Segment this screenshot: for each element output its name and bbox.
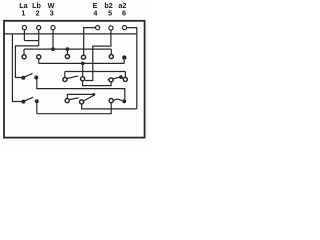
- svg-text:1: 1: [21, 9, 25, 18]
- pin number 4: [93, 9, 97, 18]
- wire A right drop: [124, 72, 126, 78]
- switch A-right ring R: [123, 77, 127, 81]
- plug contact P5: [109, 54, 113, 58]
- terminal circle 4 (E): [96, 26, 100, 30]
- rail1 right drop to contact P5: [110, 49, 112, 54]
- terminal label E: [93, 1, 98, 10]
- switch A-left arm: [25, 73, 33, 77]
- terminal circle 1 (La): [22, 26, 26, 30]
- switch A-mid arm: [67, 76, 78, 79]
- terminal circle 5 (b2): [109, 26, 113, 30]
- rail3 wire: [39, 62, 125, 64]
- plug contact P2: [37, 55, 41, 59]
- switch A-right ring L: [109, 78, 113, 82]
- wire U link 1-2: [24, 40, 38, 42]
- terminal label b2: [104, 1, 112, 10]
- wire bottom right run: [82, 104, 137, 109]
- switch C-right fixed dot: [122, 99, 126, 103]
- wire C-left fixed dot down: [36, 103, 38, 113]
- terminal circle 2 (Lb): [37, 26, 41, 30]
- switch C-left pivot dot: [21, 100, 25, 104]
- plug contact P1: [22, 55, 26, 59]
- switch C-left arm: [25, 97, 33, 101]
- wire terminal 1 stem: [23, 30, 25, 41]
- terminal label W: [48, 1, 55, 10]
- svg-text:4: 4: [93, 9, 97, 18]
- pin number 5: [108, 9, 112, 18]
- rail2 from A-left fixed dot: [37, 79, 125, 99]
- switch C-right arm: [113, 99, 122, 100]
- switch A-mid ring R: [81, 77, 85, 81]
- switch A-left fixed dot: [34, 76, 38, 80]
- switch C-mid arm 2: [84, 96, 94, 101]
- wire P2 to rail3: [38, 59, 40, 63]
- switch C-mid ring L: [65, 99, 69, 103]
- switch C-left fixed dot: [35, 99, 39, 103]
- wire rail3 down to ring A2: [82, 63, 84, 76]
- bus wire a2 net: [4, 33, 137, 35]
- terminal circle 6 (a2): [123, 26, 127, 30]
- wire left feed row C: [12, 34, 21, 102]
- terminal label a2: [118, 1, 126, 10]
- stub left of ring A3: [108, 79, 109, 81]
- junction dot rail3 x82.7: [81, 62, 85, 66]
- wire terminal 3 stem: [52, 30, 54, 49]
- terminal label Lb: [32, 1, 41, 10]
- switch A-left pivot dot: [21, 76, 25, 80]
- switch A-right arm R: [119, 77, 123, 78]
- pin number 3: [50, 9, 54, 18]
- junction dot t3-rail1: [51, 47, 55, 51]
- switch C-right ring: [109, 99, 113, 103]
- pin number 2: [36, 9, 40, 18]
- svg-text:5: 5: [108, 9, 112, 18]
- switch C-mid ring R: [80, 100, 84, 104]
- terminal label La: [19, 1, 28, 10]
- svg-text:6: 6: [122, 9, 126, 18]
- rail3 right up to P6: [123, 60, 125, 64]
- wire A left drop: [64, 72, 66, 78]
- wire terminal 4 to P4: [84, 28, 96, 55]
- rail1 drop to contact P3: [66, 49, 68, 54]
- svg-text:3: 3: [50, 9, 54, 18]
- plug contact P6 dot: [122, 55, 126, 59]
- switch C-mid arm: [69, 98, 78, 100]
- plug contact P4: [81, 55, 85, 59]
- wire B to left: [15, 46, 38, 78]
- wire terminal 5: [85, 30, 111, 80]
- pin number 1: [21, 9, 25, 18]
- switch A-mid ring L: [63, 77, 67, 81]
- rail1 left drop: [23, 49, 25, 55]
- svg-text:2: 2: [36, 9, 40, 18]
- switch A-right contact dot: [119, 75, 123, 79]
- plug contact P3: [65, 54, 69, 58]
- bottom wire: [37, 103, 111, 114]
- switch A-right arm L: [113, 77, 119, 79]
- wire A (t5 net): [65, 71, 126, 73]
- wire terminal 6 to bus: [127, 28, 137, 109]
- rail1 wire: [24, 48, 111, 50]
- terminal circle 3 (W): [51, 26, 55, 30]
- wire C1 top: [67, 94, 94, 98]
- link ring A2 to ring A3: [83, 81, 112, 86]
- contact dot end of C1 wire: [92, 93, 95, 96]
- enclosure box: [4, 21, 145, 138]
- wire terminal 2 stem: [38, 30, 40, 46]
- pin number 6: [122, 9, 126, 18]
- junction dot rail1 x67: [66, 47, 70, 51]
